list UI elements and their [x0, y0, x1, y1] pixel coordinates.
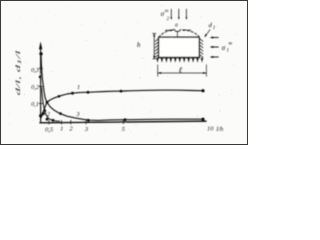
svg-text:1: 1 [227, 49, 229, 54]
svg-text:0,1: 0,1 [31, 101, 39, 108]
svg-text:h: h [137, 41, 141, 49]
svg-text:0,5: 0,5 [45, 127, 54, 134]
svg-text:a: a [175, 23, 178, 29]
svg-text:∞: ∞ [228, 41, 232, 47]
svg-text:1: 1 [77, 84, 80, 91]
svg-text:1: 1 [213, 26, 215, 31]
svg-text:0,3: 0,3 [31, 67, 39, 74]
svg-text:1: 1 [60, 126, 63, 133]
svg-text:σ: σ [222, 44, 226, 52]
svg-text:∞: ∞ [165, 8, 169, 14]
svg-text:2: 2 [47, 111, 50, 118]
svg-text:10: 10 [207, 126, 214, 133]
svg-text:l/h: l/h [216, 126, 223, 133]
svg-text:0,2: 0,2 [31, 84, 39, 91]
svg-text:3: 3 [75, 111, 79, 118]
